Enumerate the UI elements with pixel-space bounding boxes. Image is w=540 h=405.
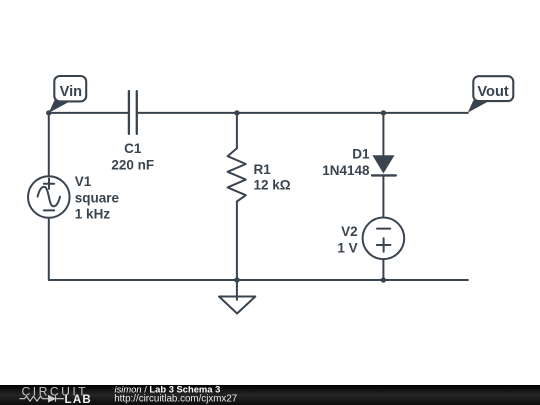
node D1 top junction dot [381, 110, 386, 115]
node Vin junction dot [46, 110, 51, 115]
svg-text:LAB: LAB [65, 394, 93, 405]
ground symbol triangle [219, 297, 255, 314]
capacitor C1 right plate [136, 91, 138, 134]
diode D1 triangle [372, 155, 394, 173]
flag Vout pointer tail [468, 100, 491, 112]
source V1 minus sign [44, 209, 54, 211]
node R1 bottom junction dot [234, 277, 239, 282]
wire bottom rail [49, 279, 468, 281]
wire V2 bottom to bottom rail [382, 259, 384, 280]
source V1 plus sign [44, 179, 54, 189]
source V2 circle [363, 218, 405, 260]
svg-text:square: square [75, 190, 120, 205]
flag Vin pointer tail [49, 100, 72, 113]
source V1 sine wave [38, 187, 60, 206]
ground stub wire [236, 280, 238, 300]
node V2 bottom junction dot [381, 277, 386, 282]
source V1 circle [28, 176, 70, 218]
svg-text:http://circuitlab.com/cjxmx27: http://circuitlab.com/cjxmx27 [114, 393, 237, 404]
wire R1 branch bottom [236, 202, 238, 281]
wire left rail upper (Vin node to V1 top) [48, 113, 50, 176]
source V2 plus sign [377, 238, 391, 252]
wire left rail lower (V1 bottom to bottom rail) [48, 218, 50, 280]
svg-text:1 kHz: 1 kHz [75, 207, 111, 222]
svg-text:V2: V2 [341, 224, 358, 239]
svg-text:C1: C1 [124, 141, 142, 156]
wire D1 branch top (node to diode anode) [382, 113, 384, 155]
wire top right (C1 right plate to Vout tail) [137, 112, 467, 114]
wire R1 branch top [236, 113, 238, 148]
svg-text:1 V: 1 V [337, 240, 357, 255]
source V2 minus sign [377, 228, 390, 230]
logo resistor-diode doodle [20, 396, 65, 401]
svg-text:Vin: Vin [60, 84, 83, 100]
svg-text:R1: R1 [254, 162, 272, 177]
logo diode doodle [49, 396, 56, 402]
node R1 top junction dot [234, 110, 239, 115]
svg-text:1N4148: 1N4148 [322, 163, 370, 178]
svg-text:12 kΩ: 12 kΩ [254, 178, 291, 193]
svg-text:V1: V1 [75, 174, 92, 189]
diode D1 cathode bar [372, 174, 396, 176]
svg-text:D1: D1 [352, 147, 370, 162]
resistor R1 zigzag [228, 148, 246, 201]
flag Vout box [473, 76, 513, 101]
svg-text:220 nF: 220 nF [111, 157, 154, 172]
svg-text:Vout: Vout [477, 84, 508, 100]
footer black banner [0, 385, 540, 405]
flag Vin box [54, 76, 86, 101]
wire top left (Vin node to C1 left plate) [49, 112, 128, 114]
capacitor C1 left plate [128, 91, 130, 134]
wire D1 cathode to V2 top [382, 175, 384, 217]
